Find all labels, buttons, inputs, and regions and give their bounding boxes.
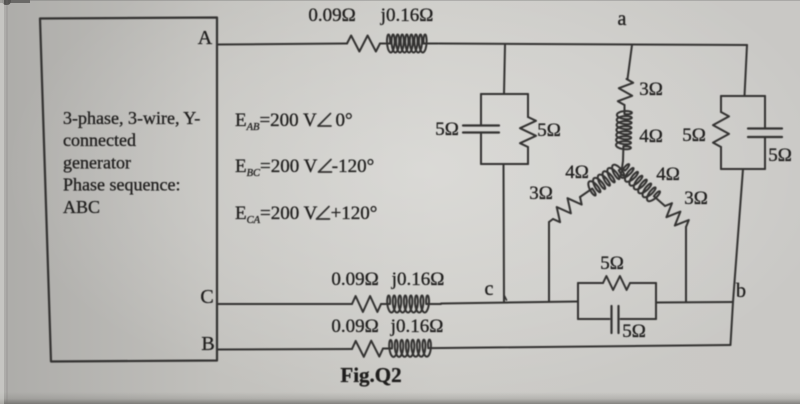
svg-text:0.09Ω: 0.09Ω bbox=[308, 5, 355, 26]
svg-text:j0.16Ω: j0.16Ω bbox=[391, 269, 445, 290]
svg-text:generator: generator bbox=[63, 152, 131, 172]
svg-text:3Ω: 3Ω bbox=[639, 79, 663, 100]
svg-text:j0.16Ω: j0.16Ω bbox=[380, 5, 434, 26]
svg-text:ABC: ABC bbox=[63, 197, 100, 217]
svg-text:4Ω: 4Ω bbox=[639, 126, 663, 147]
svg-text:5Ω: 5Ω bbox=[537, 120, 561, 141]
svg-text:5Ω: 5Ω bbox=[600, 253, 624, 274]
svg-text:C: C bbox=[200, 286, 213, 308]
svg-text:A: A bbox=[198, 27, 213, 49]
svg-text:0.09Ω: 0.09Ω bbox=[331, 316, 378, 337]
svg-text:Phase sequence:: Phase sequence: bbox=[63, 175, 180, 195]
svg-text:3Ω: 3Ω bbox=[684, 188, 708, 209]
svg-text:5Ω: 5Ω bbox=[768, 145, 792, 166]
svg-text:EBC=200 V: EBC=200 V bbox=[235, 156, 318, 179]
svg-text:5Ω: 5Ω bbox=[682, 125, 706, 146]
svg-text:0°: 0° bbox=[335, 110, 352, 131]
svg-text:+120°: +120° bbox=[331, 203, 378, 224]
svg-text:c: c bbox=[485, 278, 494, 300]
svg-text:EAB=200 V: EAB=200 V bbox=[235, 110, 317, 133]
svg-text:4Ω: 4Ω bbox=[565, 162, 589, 183]
svg-text:connected: connected bbox=[63, 130, 136, 150]
svg-text:a: a bbox=[618, 8, 627, 30]
svg-text:b: b bbox=[736, 280, 746, 302]
svg-text:B: B bbox=[201, 333, 214, 355]
svg-text:Fig.Q2: Fig.Q2 bbox=[340, 363, 401, 387]
svg-text:ECA=200 V: ECA=200 V bbox=[235, 203, 318, 226]
svg-text:3Ω: 3Ω bbox=[529, 183, 553, 204]
svg-text:-120°: -120° bbox=[332, 156, 374, 177]
svg-text:4Ω: 4Ω bbox=[656, 164, 680, 185]
svg-text:0.09Ω: 0.09Ω bbox=[331, 269, 378, 290]
svg-text:5Ω: 5Ω bbox=[622, 321, 646, 342]
svg-text:3-phase, 3-wire, Y-: 3-phase, 3-wire, Y- bbox=[63, 108, 200, 128]
svg-text:5Ω: 5Ω bbox=[435, 119, 459, 140]
svg-text:j0.16Ω: j0.16Ω bbox=[390, 316, 444, 337]
